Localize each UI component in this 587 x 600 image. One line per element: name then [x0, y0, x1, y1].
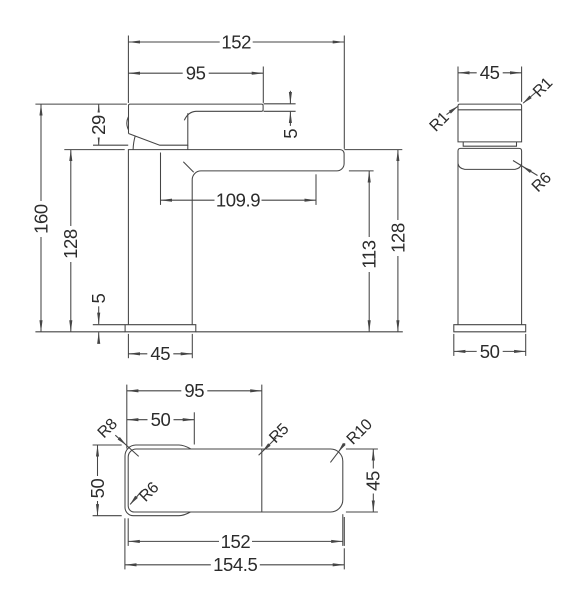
svg-text:29: 29: [88, 115, 109, 135]
svg-text:109.9: 109.9: [216, 190, 260, 211]
svg-text:R1: R1: [530, 74, 556, 100]
svg-text:R8: R8: [95, 415, 121, 441]
svg-text:R10: R10: [344, 416, 376, 448]
svg-text:R6: R6: [136, 479, 162, 505]
svg-text:R6: R6: [529, 169, 555, 195]
svg-text:5: 5: [88, 293, 109, 303]
svg-text:R5: R5: [266, 420, 292, 446]
svg-text:50: 50: [480, 341, 500, 362]
svg-text:128: 128: [60, 229, 81, 259]
svg-text:113: 113: [359, 240, 380, 268]
svg-text:50: 50: [87, 479, 108, 499]
svg-text:160: 160: [30, 204, 51, 234]
svg-text:5: 5: [280, 129, 301, 139]
svg-text:50: 50: [151, 409, 171, 430]
svg-text:45: 45: [150, 343, 170, 364]
svg-text:152: 152: [221, 531, 251, 552]
svg-text:128: 128: [387, 223, 408, 253]
svg-text:152: 152: [221, 31, 251, 52]
svg-text:45: 45: [363, 471, 384, 491]
svg-text:95: 95: [184, 380, 204, 401]
svg-text:45: 45: [480, 62, 500, 83]
svg-text:154.5: 154.5: [213, 554, 257, 575]
svg-text:95: 95: [186, 63, 206, 84]
